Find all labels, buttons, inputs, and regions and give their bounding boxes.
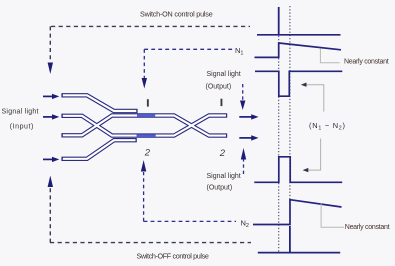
node: arrowhead down into input region	[48, 63, 53, 75]
svg-text:Signal light: Signal light	[2, 109, 39, 116]
waveguide input C -> arm1 -> output2	[61, 116, 227, 136]
input arrow A	[43, 94, 59, 99]
svg-text:Signal light: Signal light	[207, 71, 241, 78]
trace: switch-ON pulse baseline	[257, 34, 341, 36]
dotted time-marker line t2	[289, 6, 291, 253]
wire: navy dashed path to SOA2 (vertical)	[143, 172, 145, 221]
input arrow D	[43, 157, 59, 162]
wire: dashed arrow down at output 1	[242, 84, 244, 101]
trace: switch-OFF pulse baseline	[258, 252, 340, 254]
wire: switch-ON dashed control line (top horizontal)	[51, 25, 250, 27]
svg-text:Nearly constant: Nearly constant	[344, 59, 389, 66]
waveguide navy outlines	[61, 95, 227, 159]
svg-text:2: 2	[144, 147, 151, 158]
wire: dashed arrow up at output 2	[243, 152, 245, 175]
wire: navy dashed line to N2 label	[144, 220, 236, 222]
pointer: N1-N2 upper arrow	[304, 85, 324, 112]
trace: N2 carrier density	[253, 200, 342, 225]
output arrow 2	[239, 135, 258, 140]
waveguide input A (top stub)	[61, 95, 137, 111]
label: output port 1	[221, 99, 223, 106]
output arrow 1	[239, 114, 258, 119]
pointer: N1-N2 lower arrow	[306, 139, 321, 171]
pointer: nearly constant (top)	[320, 49, 339, 63]
trace: switch-OFF pulse spike	[289, 226, 291, 253]
wire: navy dashed path to SOA1 (vertical)	[143, 49, 145, 78]
svg-text:(Input): (Input)	[10, 124, 34, 131]
trace: output2 gate window pulse	[254, 157, 342, 183]
wire: switch-OFF dashed control line (bottom horizontal)	[50, 242, 251, 244]
node: arrowhead down to SOA1	[142, 78, 147, 89]
node: arrowhead up to SOA2	[141, 160, 146, 172]
wire: switch-OFF dashed vertical rise (left)	[49, 188, 51, 243]
svg-text:Switch-ON control pulse: Switch-ON control pulse	[140, 10, 213, 19]
trace: switch-ON pulse spike	[278, 7, 280, 35]
node: arrowhead up	[48, 176, 53, 188]
dotted time-marker line t1	[278, 7, 280, 253]
label: SOA 1	[147, 99, 149, 106]
waveguide input D (bottom stub)	[61, 140, 136, 159]
svg-text:(Output): (Output)	[207, 185, 233, 192]
svg-text:(Output): (Output)	[206, 83, 232, 90]
svg-text:2: 2	[219, 148, 226, 159]
svg-text:Nearly constant: Nearly constant	[345, 224, 390, 231]
trace: N1 carrier density	[255, 43, 342, 57]
wire: navy dashed line to N1 label	[144, 48, 233, 50]
waveguide white cores	[63, 95, 226, 159]
svg-text:Switch-OFF control pulse: Switch-OFF control pulse	[137, 252, 209, 261]
SOA 2 blue segment	[137, 134, 156, 137]
svg-text:Signal light: Signal light	[207, 173, 241, 180]
waveguide input B -> arm2 -> output1	[61, 116, 227, 136]
trace: N1-N2 difference	[255, 71, 342, 96]
input arrow B	[43, 114, 59, 119]
wire: switch-ON dashed vertical drop (left)	[49, 26, 51, 61]
SOA 1 blue segment	[137, 114, 155, 117]
pointer: nearly constant (bottom)	[321, 204, 344, 228]
